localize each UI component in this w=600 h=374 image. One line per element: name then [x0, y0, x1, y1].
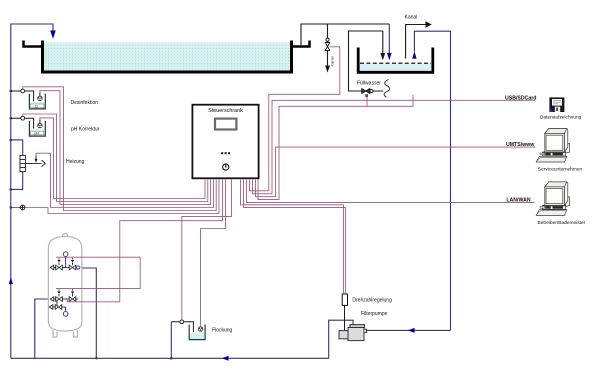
svg-text:USB/SDCard: USB/SDCard — [505, 95, 536, 101]
svg-text:Kanal: Kanal — [405, 15, 418, 21]
svg-text:Serviceunternehmen: Serviceunternehmen — [538, 167, 583, 173]
svg-text:Drehzahlregelung: Drehzahlregelung — [352, 297, 392, 303]
svg-text:Datenaufzeichnung: Datenaufzeichnung — [540, 115, 582, 121]
svg-text:Cl: Cl — [35, 104, 38, 108]
svg-text:Heizung: Heizung — [66, 159, 85, 165]
svg-text:B: B — [365, 93, 368, 98]
svg-text:Flockung: Flockung — [212, 328, 233, 334]
svg-text:Desinfektion: Desinfektion — [71, 100, 99, 106]
svg-text:Steuerschrank: Steuerschrank — [208, 108, 243, 114]
svg-text:Filterpumpe: Filterpumpe — [361, 311, 388, 317]
svg-text:Kanal: Kanal — [330, 56, 335, 66]
svg-text:Füllwasser: Füllwasser — [357, 81, 381, 87]
svg-text:UMTS/www: UMTS/www — [506, 142, 535, 148]
svg-text:Betreiber/Bademeister: Betreiber/Bademeister — [538, 220, 586, 226]
svg-text:LAN/WAN: LAN/WAN — [506, 198, 530, 204]
svg-text:pH: pH — [35, 132, 40, 136]
svg-text:pH Korrektur: pH Korrektur — [71, 126, 100, 132]
